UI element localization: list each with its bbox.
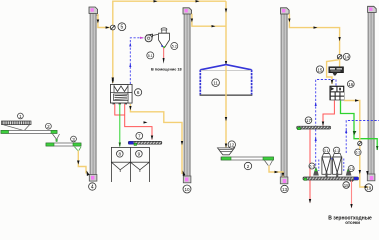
belt conveyor 12 [221, 157, 274, 160]
svg-text:18: 18 [344, 183, 349, 188]
elevator 4 head [89, 7, 99, 16]
waste line conveyor17 down [309, 130, 311, 204]
screw conveyor 17 [297, 126, 331, 130]
elevator column 10 (leg) [184, 14, 190, 178]
svg-text:19: 19 [366, 186, 372, 191]
svg-text:13: 13 [282, 187, 288, 192]
label circle 2 [46, 123, 52, 129]
elevator column 19 (leg) [368, 13, 374, 175]
screw feeder 15 [329, 67, 344, 76]
grain line elevator10 head to building riser [191, 14, 226, 28]
svg-text:12: 12 [229, 142, 234, 147]
label circle 4 [89, 183, 96, 191]
label circle 6 [135, 89, 142, 96]
label circle 3 [71, 136, 77, 142]
grain line green machine16 to right [341, 101, 379, 151]
elevator 10 head [183, 8, 192, 14]
diverter valve on line to 19 [358, 141, 362, 145]
svg-text:10: 10 [184, 187, 190, 192]
svg-text:отсеки: отсеки [345, 220, 360, 225]
grain line green machine6 to bin8 [119, 104, 121, 147]
text to waste bins [328, 215, 372, 225]
label circle 5 [118, 23, 126, 31]
grain line yellow machine16 to elevator19 boot [344, 99, 369, 188]
label circle 14 [343, 53, 350, 60]
label circle 4.2 [348, 166, 354, 172]
svg-text:17: 17 [306, 118, 311, 123]
bins 8 and 9 [111, 147, 149, 182]
svg-text:14: 14 [344, 55, 349, 60]
receiving funnel 12 [218, 148, 235, 155]
svg-text:2: 2 [47, 124, 50, 129]
svg-text:5.1: 5.1 [148, 54, 153, 58]
svg-text:9: 9 [138, 152, 141, 157]
grain line elevator4 head to diverter 5 [97, 14, 111, 29]
svg-text:4.2: 4.2 [349, 167, 354, 171]
elevator column 13 (leg) [281, 14, 287, 178]
svg-text:16: 16 [348, 82, 353, 87]
grain line conveyor3 to elevator4 boot [77, 151, 90, 177]
svg-text:В помещение 18: В помещение 18 [151, 68, 182, 72]
label circle 1 [18, 113, 24, 119]
grain line building to funnel 12 [225, 66, 227, 148]
label circle 13 [281, 185, 288, 192]
svg-text:6.1: 6.1 [309, 165, 314, 169]
main riser line with diverter 5 [112, 0, 227, 83]
diverter valve 14 [337, 55, 342, 60]
fan 5.1 [145, 34, 158, 42]
svg-text:8: 8 [119, 152, 122, 157]
screw conveyor 7 [128, 141, 162, 145]
aspiration branch over column [345, 121, 379, 154]
label circle 3.1 [323, 147, 329, 153]
receiving grate 1 [2, 121, 32, 125]
cleaning machine 16 [330, 86, 344, 100]
text to room 18 [151, 68, 182, 72]
waste line conveyor18 down [350, 181, 352, 209]
airlock left with green valve [313, 168, 319, 176]
belt conveyor 3 [46, 143, 81, 146]
waste line red machine6 to conveyor7 [115, 104, 153, 140]
grain line yellow machine6 to elevator10 boot [129, 104, 185, 176]
label circle 6.3 [355, 149, 361, 155]
airlock right with green valve [346, 168, 352, 176]
svg-text:6: 6 [137, 90, 140, 96]
warehouse building 11 [200, 65, 253, 96]
transfer funnel 2 to 3 [53, 134, 60, 142]
grain line elevator13 head to diverter 14 [288, 14, 341, 55]
svg-text:5: 5 [121, 25, 124, 31]
svg-text:15: 15 [317, 67, 322, 72]
belt conveyor 2 [1, 130, 57, 133]
aspiration manifold at cyclones [319, 159, 344, 172]
separator machine 6 [111, 85, 133, 105]
elevator 10 boot [183, 176, 191, 183]
discharge funnel of conveyor 3 [75, 147, 82, 151]
label circle 10 [183, 185, 191, 193]
cyclone bin 3.1 [322, 154, 331, 178]
svg-text:3.1: 3.1 [324, 149, 329, 153]
grain line diverter to feeder 15 [339, 59, 341, 67]
svg-text:3: 3 [72, 137, 75, 142]
label circle 6.1 [309, 163, 315, 169]
discharge funnel conveyor 12 [265, 161, 273, 166]
elevator 4 boot [89, 175, 97, 182]
svg-text:1: 1 [19, 114, 22, 119]
cyclone 5.2 [159, 28, 170, 48]
elevator column 4 (leg) [90, 13, 96, 176]
svg-text:7: 7 [138, 134, 141, 139]
svg-text:11: 11 [213, 81, 218, 86]
cyclone bin 4.1 [333, 154, 342, 178]
label circle 17 [305, 117, 312, 124]
waste line cyclone to room 18 [161, 45, 164, 64]
label circle 9 [136, 151, 143, 158]
aspiration duct machine16 manifold [315, 80, 336, 172]
grain line conveyor12 to elevator13 boot [269, 166, 284, 178]
label circle 12 [228, 141, 235, 148]
label circle 18 [343, 182, 350, 189]
hopper under grate [4, 125, 30, 130]
diverter valve 5 [110, 25, 115, 30]
label circle 4.1 [333, 147, 339, 153]
waste line red machine16 to conveyor17 [322, 101, 335, 127]
svg-text:4.1: 4.1 [334, 149, 339, 153]
svg-text:6.3: 6.3 [355, 151, 360, 155]
elevator 13 boot [280, 177, 288, 184]
label circle 5.2 [171, 43, 178, 50]
label circle 8 [117, 151, 124, 158]
svg-text:2: 2 [247, 164, 250, 169]
label circle 19 [365, 184, 373, 192]
bypass line diverter left branch to machine 16 [327, 60, 339, 85]
label circle 11 [212, 79, 220, 87]
elevator 19 head [368, 6, 377, 12]
aspiration duct machine6 to fan 5.1 [129, 37, 144, 84]
svg-text:4: 4 [91, 184, 94, 190]
inlet arrow machine 6 [112, 80, 114, 84]
label circle 2 of conveyor 12 [244, 162, 251, 169]
elevator 13 head [281, 8, 290, 14]
building riser down line [225, 1, 227, 65]
label circle 15 [316, 66, 323, 73]
elevator 19 boot [367, 174, 375, 181]
screw conveyor 18 [303, 177, 359, 183]
label circle 16 [347, 81, 354, 88]
label circle 5.1 [147, 52, 154, 59]
label circle 7 [136, 132, 143, 139]
svg-text:5.2: 5.2 [172, 45, 177, 49]
